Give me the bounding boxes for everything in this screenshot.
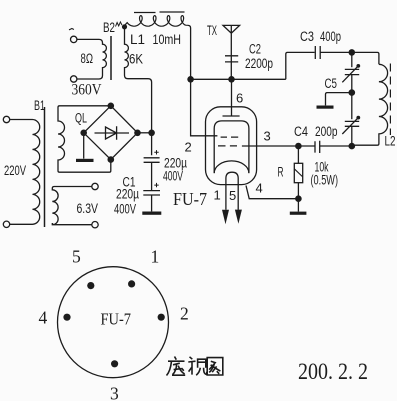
capacitor C2 plates [225, 56, 238, 62]
filament arrow pin 5 [235, 210, 242, 224]
capacitor C1 lower 220u plates [143, 191, 160, 195]
svg-text:2200p: 2200p [245, 56, 273, 71]
svg-text:200p: 200p [315, 124, 338, 139]
ground at bridge left corner [83, 136, 85, 159]
svg-text:B2: B2 [103, 20, 115, 35]
svg-text:2: 2 [185, 140, 192, 155]
node bridge bottom [108, 156, 115, 163]
wire to lower variable cap [351, 93, 353, 120]
wire C1 to ground [151, 195, 153, 211]
capacitor C1 upper plus [154, 150, 158, 154]
transformer B2 speaker terminal top [71, 36, 77, 42]
transformer B1 core [44, 107, 46, 227]
node bridge left [80, 130, 87, 137]
caption character shi [188, 357, 207, 375]
tube grid 1 dashes [221, 136, 239, 138]
variable capacitor lower arrow [342, 118, 357, 134]
transformer B2 speaker terminal bottom [71, 76, 77, 82]
transformer B2 core [110, 36, 112, 80]
wire pin 3 to C4 [242, 145, 299, 147]
vacuum tube FU-7 envelope [206, 107, 257, 185]
svg-text:8Ω: 8Ω [81, 51, 94, 66]
transformer B1 HV secondary winding and wire loop to bridge [58, 106, 111, 172]
transformer B1 primary terminal top [3, 116, 9, 122]
wire plate rail horizontal [191, 78, 286, 80]
svg-text:2: 2 [180, 303, 189, 323]
svg-text:3: 3 [264, 129, 271, 144]
wire riser to C3 [286, 52, 315, 79]
node B+ rail / bridge output [148, 130, 155, 137]
svg-text:200. 2. 2: 200. 2. 2 [298, 359, 368, 384]
transformer B1 primary winding 220V [33, 120, 40, 225]
choke L1 hand-drawn coil [125, 16, 189, 27]
node bridge top [108, 103, 115, 110]
svg-text:400p: 400p [320, 29, 341, 44]
svg-text:1: 1 [214, 188, 221, 203]
B2 scribble [116, 22, 122, 27]
wire C5 junction to ground [326, 93, 352, 106]
wire pin 4 [246, 186, 298, 199]
svg-text:6.3V: 6.3V [77, 201, 99, 216]
node B2/L1 junction [122, 24, 127, 29]
wire tank top to variable cap [351, 52, 353, 67]
base pin 2 dot [158, 314, 165, 321]
variable capacitor lower plates [345, 121, 359, 126]
wire [10, 223, 33, 225]
svg-text:3: 3 [110, 383, 119, 401]
svg-text:5: 5 [72, 247, 81, 267]
svg-text:220µ: 220µ [116, 187, 139, 202]
wire [351, 126, 353, 146]
variable capacitor C5 upper plates [345, 69, 359, 74]
node bridge right [134, 130, 141, 137]
capacitor C3 plates [315, 46, 320, 59]
tube cathode dome [214, 161, 249, 173]
svg-text:C2: C2 [249, 42, 261, 57]
caption character tu [207, 358, 223, 375]
wire [10, 119, 33, 121]
svg-text:6: 6 [236, 91, 243, 106]
choke L1 core dashes [134, 11, 185, 14]
svg-text:C3: C3 [300, 29, 314, 44]
wire C3 to tank top [320, 51, 352, 53]
capacitor C4 plates [298, 141, 351, 153]
bridge rectifier QL [84, 106, 138, 160]
tube plate [223, 115, 240, 117]
base pin 4 dot [63, 314, 70, 321]
svg-text:220V: 220V [4, 163, 26, 178]
inductor L2 [352, 64, 388, 145]
wire tank top to L2 [352, 52, 379, 64]
wire L1 right end down to grid node [188, 25, 217, 135]
svg-text:6K: 6K [129, 52, 143, 67]
svg-text:1: 1 [151, 246, 160, 266]
stray mark [69, 29, 74, 30]
svg-text:L1: L1 [130, 32, 145, 47]
svg-text:FU-7: FU-7 [101, 310, 132, 329]
tube base diagram circle [58, 267, 169, 378]
base pin 5 dot [87, 282, 94, 289]
6.3V terminal top [92, 183, 98, 189]
svg-text:10mH: 10mH [153, 32, 182, 47]
resistor R [297, 146, 299, 163]
caption di-shi-tu (bottom view) character di [167, 357, 186, 376]
node R bottom / pin4 junction [295, 195, 302, 202]
capacitor C1 lower plus [154, 183, 158, 187]
transformer B1 primary terminal bottom [3, 221, 9, 227]
node pin3/C4/R junction [295, 143, 302, 150]
wire [351, 75, 353, 93]
svg-text:360V: 360V [72, 82, 102, 99]
node tank bottom [349, 143, 356, 150]
node plate supply junction [187, 76, 194, 83]
svg-text:FU-7: FU-7 [173, 189, 207, 209]
svg-text:400V: 400V [114, 202, 136, 217]
variable capacitor C5 upper arrow [342, 67, 357, 83]
L2 core dashed line [389, 64, 391, 136]
svg-text:C5: C5 [325, 76, 338, 91]
filament arrow pin 1 [222, 210, 229, 224]
svg-text:TX: TX [207, 23, 217, 38]
svg-text:4: 4 [256, 181, 263, 196]
base pin 3 dot [111, 360, 118, 367]
node plate/C2 junction [228, 76, 235, 83]
ground below C5 [317, 106, 334, 109]
node C5 mid junction [349, 89, 356, 96]
svg-text:4: 4 [39, 308, 48, 328]
diode inside bridge [95, 126, 130, 140]
antenna TX [223, 25, 240, 79]
base pin 1 dot [128, 280, 135, 287]
svg-text:QL: QL [75, 111, 87, 126]
wire bridge right to B+ rail [138, 132, 152, 134]
transformer B2 8ohm winding [77, 39, 106, 79]
node tank top [349, 49, 356, 56]
tube heater [226, 172, 238, 210]
svg-text:B1: B1 [34, 98, 45, 113]
svg-text:5: 5 [229, 188, 236, 203]
svg-text:R: R [278, 165, 284, 180]
svg-text:400V: 400V [163, 169, 183, 184]
tube inner structure [214, 121, 249, 173]
ground below R [297, 199, 299, 212]
tube grid 2 dashes [218, 145, 237, 147]
svg-text:L2: L2 [385, 134, 396, 149]
ground below C1 [142, 212, 161, 215]
transformer B2 6K winding and B+ feed wire [125, 27, 152, 156]
wire pin6 lead [231, 79, 233, 116]
svg-text:C4: C4 [294, 124, 308, 139]
svg-text:(0.5W): (0.5W) [311, 173, 339, 188]
transformer B1 6.3V winding [52, 187, 92, 225]
6.3V terminal bottom [92, 222, 98, 228]
capacitor C1 upper 220u plates [144, 158, 160, 163]
wire between C1 sections [151, 162, 153, 190]
